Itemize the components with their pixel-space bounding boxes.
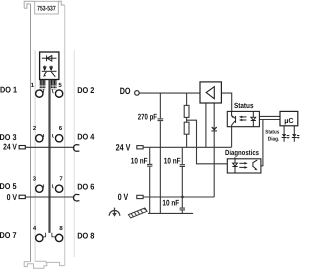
svg-text:DO 3: DO 3 [0,132,17,142]
svg-text:10 nF: 10 nF [162,199,179,208]
svg-text:µC: µC [284,116,293,125]
svg-text:Diag.: Diag. [268,136,280,142]
svg-text:DO: DO [120,86,131,96]
svg-text:DO 4: DO 4 [77,131,94,141]
svg-text:DO 7: DO 7 [0,230,17,240]
svg-text:Status: Status [234,101,254,110]
svg-text:753-537: 753-537 [37,6,56,13]
svg-text:10 nF: 10 nF [131,156,148,165]
svg-text:Diagnostics: Diagnostics [225,148,259,157]
svg-text:0 V: 0 V [7,192,18,202]
svg-text:Status: Status [265,129,279,135]
svg-text:DO 5: DO 5 [0,181,17,191]
svg-text:DO 2: DO 2 [77,85,94,95]
svg-text:10 nF: 10 nF [164,156,181,165]
svg-text:24 V: 24 V [3,141,17,151]
svg-text:DO 8: DO 8 [77,231,94,241]
svg-text:0 V: 0 V [118,192,129,202]
svg-text:DO 1: DO 1 [0,84,17,94]
svg-text:DO 6: DO 6 [77,182,94,192]
svg-text:270 pF: 270 pF [138,112,157,121]
svg-text:24 V: 24 V [116,142,131,152]
